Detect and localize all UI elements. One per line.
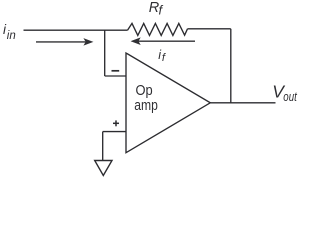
wire feedback right vertical (230, 29, 232, 103)
arrow input current (36, 39, 93, 45)
op-amp U1 (126, 53, 210, 153)
label i_f (158, 48, 167, 64)
label Vout (272, 82, 297, 105)
label i_in (3, 22, 16, 42)
wire output (210, 102, 275, 104)
wire ground lead (102, 132, 104, 161)
wire inverting input vertical (104, 30, 106, 76)
wire noninverting input (103, 131, 126, 133)
label Op amp (134, 82, 158, 114)
svg-text:f: f (159, 3, 164, 18)
wire input (24, 29, 128, 31)
svg-text:f: f (162, 52, 167, 64)
wire feedback top (188, 28, 231, 30)
wire inverting input horizontal (105, 75, 126, 77)
arrow if feedback current (132, 38, 196, 44)
label Rf (149, 0, 164, 17)
resistor Rf (128, 23, 188, 35)
minus input sign (112, 70, 120, 72)
svg-text:amp: amp (134, 97, 158, 114)
plus input sign (113, 120, 119, 126)
ground (95, 161, 112, 176)
svg-text:out: out (283, 90, 297, 104)
svg-text:in: in (7, 30, 16, 42)
